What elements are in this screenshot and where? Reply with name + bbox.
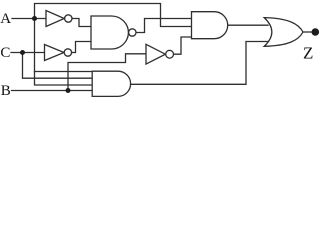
- svg-text:A: A: [0, 11, 11, 27]
- svg-text:Z: Z: [303, 43, 313, 62]
- svg-text:B: B: [1, 83, 11, 99]
- svg-text:C: C: [0, 45, 10, 61]
